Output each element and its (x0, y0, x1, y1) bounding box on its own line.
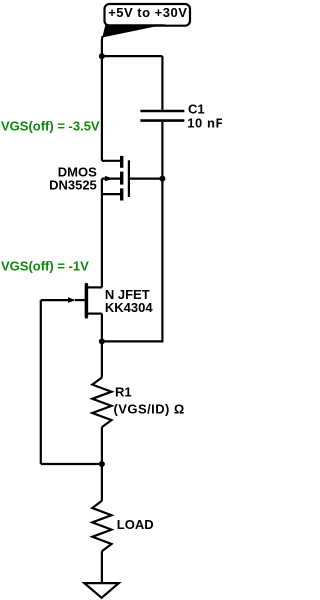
wire: capacitor bottom to gate node (161, 122, 163, 179)
node: supply junction (99, 53, 105, 59)
svg-text:VGS(off) = -3.5V: VGS(off) = -3.5V (1, 118, 100, 133)
transistor Q2 N JFET KK4304 (68, 285, 102, 317)
wire: gate node down and left to JFET source node (102, 179, 162, 342)
wire: main line supply node to DMOS drain (101, 56, 103, 161)
wire: capacitor branch top (161, 56, 163, 110)
transistor Q1 DMOS DN3525 (102, 156, 129, 201)
wire: R1 bottom to feedback node (101, 427, 103, 464)
wire: node to LOAD top (101, 464, 103, 501)
wire: junction to R1 top (101, 341, 103, 377)
node: R1 bottom / gate feedback junction (99, 461, 105, 467)
svg-text:(VGS/ID) Ω: (VGS/ID) Ω (114, 401, 185, 416)
ground (84, 583, 119, 598)
node: DMOS gate junction (159, 176, 165, 182)
svg-text:VGS(off) = -1V: VGS(off) = -1V (1, 259, 89, 274)
svg-text:DN3525: DN3525 (49, 177, 97, 192)
svg-text:10 nF: 10 nF (187, 115, 222, 130)
node: JFET source / R1 junction (99, 338, 105, 344)
wire: supply node to capacitor branch (102, 55, 162, 57)
svg-text:C1: C1 (188, 102, 205, 117)
svg-text:KK4304: KK4304 (105, 300, 153, 315)
wire: feedback branch bottom horizontal (41, 463, 102, 465)
wire: feedback branch vertical (40, 300, 42, 464)
svg-text:LOAD: LOAD (117, 517, 154, 532)
svg-text:+5V to +30V: +5V to +30V (108, 5, 187, 20)
capacitor C1 (140, 111, 184, 121)
resistor R1 (92, 378, 111, 428)
wire: DMOS source to JFET drain (101, 194, 103, 287)
wire: DMOS gate to gate node (129, 178, 163, 180)
wire: JFET source down to node (101, 314, 103, 342)
wire: LOAD bottom to ground (101, 551, 103, 583)
voltage source label bubble +5V to +30V (102, 4, 190, 38)
resistor LOAD (92, 501, 111, 551)
svg-text:R1: R1 (115, 385, 132, 400)
wire: JFET gate to feedback branch (41, 299, 69, 301)
wire: bubble tail to supply node (101, 36, 104, 56)
